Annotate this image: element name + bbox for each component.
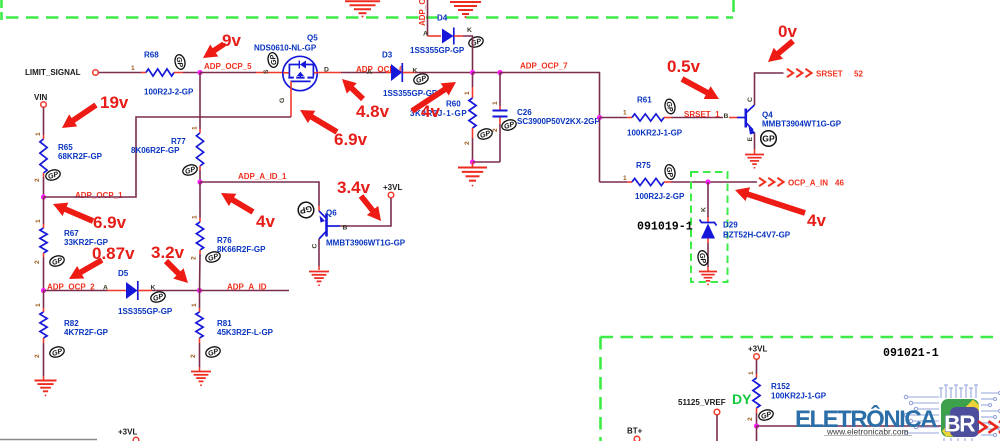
annotation arrow 3.2v xyxy=(164,259,188,283)
resistor R81 xyxy=(190,291,274,372)
svg-text:GP: GP xyxy=(268,54,279,66)
resistor R60 xyxy=(410,73,476,163)
resistor R65 xyxy=(34,108,103,198)
svg-text:VIN: VIN xyxy=(34,93,48,102)
sheet edge line bottom-left xyxy=(0,439,97,441)
svg-text:ADP_OCP_5: ADP_OCP_5 xyxy=(204,62,252,71)
svg-text:0.5v: 0.5v xyxy=(667,57,701,76)
svg-text:1SS355GP-GP: 1SS355GP-GP xyxy=(118,307,173,316)
svg-text:45K3R2F-L-GP: 45K3R2F-L-GP xyxy=(217,328,274,337)
annotation arrow 3.4v xyxy=(359,194,381,221)
svg-text:1: 1 xyxy=(35,303,42,307)
svg-text:4.8v: 4.8v xyxy=(356,102,390,121)
svg-text:100KR2J-1-GP: 100KR2J-1-GP xyxy=(771,392,827,401)
node at D4/R60 junction xyxy=(470,70,475,75)
svg-text:46: 46 xyxy=(835,179,844,188)
svg-text:ADP_OCP_1: ADP_OCP_1 xyxy=(75,191,123,200)
svg-text:E: E xyxy=(747,137,754,142)
node D29 branch xyxy=(705,179,710,184)
svg-text:R81: R81 xyxy=(217,319,232,328)
wire LIMIT_SIGNAL to R68 xyxy=(99,72,142,74)
annotation arrow 0.5v xyxy=(681,76,719,99)
svg-text:1: 1 xyxy=(748,371,755,375)
annotation arrow 6.9v xyxy=(53,203,94,224)
svg-text:9v: 9v xyxy=(222,31,241,50)
wire Q5 drain to D3 xyxy=(316,72,341,74)
GP stamp R75 xyxy=(664,164,677,181)
diode D29 (zener) xyxy=(700,182,791,271)
GP stamp D4 xyxy=(467,35,484,49)
GP stamp R76 xyxy=(204,250,221,264)
svg-text:LIMIT_SIGNAL: LIMIT_SIGNAL xyxy=(25,68,81,77)
svg-text:R77: R77 xyxy=(171,137,186,146)
svg-text:K: K xyxy=(701,207,708,212)
ground below Q4 xyxy=(745,155,764,169)
svg-text:0v: 0v xyxy=(778,22,797,41)
resistor R76 xyxy=(191,182,267,291)
node ADP_A_ID_1 xyxy=(197,179,202,184)
resistor R152 xyxy=(747,360,827,427)
net SRSET_1 xyxy=(671,117,723,119)
svg-text:NDS0610-NL-GP: NDS0610-NL-GP xyxy=(254,44,317,53)
svg-text:R152: R152 xyxy=(771,382,791,391)
wire D3 to node xyxy=(415,72,473,74)
svg-text:R75: R75 xyxy=(636,161,651,170)
svg-text:A: A xyxy=(423,31,428,38)
green dashed box D29 xyxy=(691,172,728,282)
svg-text:6.9v: 6.9v xyxy=(93,213,127,232)
svg-text:BZT52H-C4V7-GP: BZT52H-C4V7-GP xyxy=(723,231,791,240)
annotation arrow 9v xyxy=(203,42,226,58)
svg-text:2: 2 xyxy=(34,178,41,182)
diode D4 xyxy=(410,14,472,56)
svg-text:R68: R68 xyxy=(144,51,159,60)
svg-text:K: K xyxy=(413,68,418,75)
svg-text:R60: R60 xyxy=(446,100,461,109)
node ADP_OCP_2 xyxy=(41,288,46,293)
ground (top, cut) xyxy=(345,1,380,17)
svg-text:51125_VREF: 51125_VREF xyxy=(678,398,726,407)
svg-text:ADP_OCP: ADP_OCP xyxy=(418,0,427,26)
GP stamp R81 xyxy=(204,345,221,359)
ground below Q6 xyxy=(309,272,329,287)
svg-text:www.eletronicabr.com: www.eletronicabr.com xyxy=(826,427,908,437)
svg-text:G: G xyxy=(279,98,286,103)
svg-text:DY: DY xyxy=(732,391,752,407)
svg-text:1: 1 xyxy=(192,215,199,219)
net SRSET pointer xyxy=(787,69,812,77)
svg-text:C26: C26 xyxy=(517,108,532,117)
svg-text:BT+: BT+ xyxy=(627,427,643,436)
annotation arrow 4v xyxy=(735,187,806,216)
wire to D4 anode xyxy=(427,0,429,36)
resistor R77 xyxy=(131,73,204,183)
wire node to C26 node xyxy=(473,72,501,74)
wire 51125_VREF down xyxy=(716,415,718,441)
svg-text:6.9v: 6.9v xyxy=(334,130,368,149)
svg-text:MMBT3904WT1G-GP: MMBT3904WT1G-GP xyxy=(762,120,842,129)
svg-text:2: 2 xyxy=(492,128,499,132)
watermark url underline xyxy=(824,435,912,437)
svg-text:ADP_OCP_7: ADP_OCP_7 xyxy=(520,62,568,71)
node ADP_OCP_1 xyxy=(41,194,46,199)
wire to D5 xyxy=(44,290,108,292)
svg-text:+3VL: +3VL xyxy=(118,428,137,437)
svg-text:D29: D29 xyxy=(723,221,738,230)
svg-text:0.87v: 0.87v xyxy=(92,244,135,263)
wire D5 to node xyxy=(152,290,200,292)
svg-text:R65: R65 xyxy=(58,143,73,152)
watermark circuit traces xyxy=(904,385,1000,441)
annotation arrow 6.9v xyxy=(300,110,339,135)
svg-text:4v: 4v xyxy=(256,212,275,231)
ground below R81 xyxy=(191,372,211,387)
annotation arrow 19v xyxy=(62,103,98,128)
svg-text:1: 1 xyxy=(35,219,42,223)
svg-text:ADP_A_ID_1: ADP_A_ID_1 xyxy=(238,172,287,181)
diode D3 xyxy=(382,51,438,99)
svg-text:100KR2J-1-GP: 100KR2J-1-GP xyxy=(627,129,683,138)
transistor Q5 (P-MOSFET) xyxy=(254,34,329,104)
wire D4 to node xyxy=(463,36,473,73)
wire down to R75 xyxy=(599,118,601,183)
green dashed box bottom-right xyxy=(601,337,1000,441)
svg-text:BR: BR xyxy=(944,411,976,437)
svg-text:68KR2F-GP: 68KR2F-GP xyxy=(58,152,103,161)
wire ADP_A_ID_1 to Q6 xyxy=(200,182,319,206)
svg-text:C: C xyxy=(312,244,319,249)
svg-text:2: 2 xyxy=(34,260,41,264)
svg-text:Q5: Q5 xyxy=(307,34,318,43)
resistor R67 xyxy=(34,197,109,291)
svg-text:R67: R67 xyxy=(64,229,79,238)
svg-text:2: 2 xyxy=(190,354,197,358)
wire to OCP_A_IN xyxy=(671,181,757,183)
ground below R82 xyxy=(35,381,57,397)
svg-text:B: B xyxy=(724,113,729,120)
GP stamp R65 xyxy=(44,168,61,182)
GP stamp R60 xyxy=(476,127,493,141)
svg-text:1: 1 xyxy=(131,65,135,72)
svg-text:K: K xyxy=(467,27,472,34)
node R60/C26 bottom xyxy=(470,159,475,164)
net pointer bottom right xyxy=(978,421,1000,433)
svg-text:Q6: Q6 xyxy=(326,209,337,218)
svg-text:SRSET_1: SRSET_1 xyxy=(684,110,720,119)
GP stamp D5 xyxy=(149,290,166,304)
svg-text:1: 1 xyxy=(623,110,627,117)
resistor R68 xyxy=(131,51,194,97)
annotation arrow 4v xyxy=(221,193,255,215)
GP stamp R77 xyxy=(181,163,198,177)
node R152 bottom xyxy=(754,423,759,428)
svg-text:4v: 4v xyxy=(807,211,826,230)
GP stamp R82 xyxy=(48,345,65,359)
svg-text:1: 1 xyxy=(192,126,199,130)
GP stamp R61 xyxy=(664,98,677,115)
svg-text:19v: 19v xyxy=(100,93,129,112)
svg-text:1: 1 xyxy=(623,175,627,182)
svg-text:SC3900P50V2KX-2GP: SC3900P50V2KX-2GP xyxy=(517,117,600,126)
svg-text:100R2J-2-GP: 100R2J-2-GP xyxy=(144,88,194,97)
svg-text:OCP_A_IN: OCP_A_IN xyxy=(788,179,828,188)
GP stamp C26 xyxy=(500,118,517,132)
node R61 branch xyxy=(597,115,602,120)
ground below R60 xyxy=(472,162,474,167)
svg-text:2: 2 xyxy=(747,417,754,421)
GP stamp R67 xyxy=(48,254,65,268)
resistor R61 xyxy=(623,96,683,138)
wire R68 to node xyxy=(183,72,200,74)
wire node to Q5 source xyxy=(200,72,256,74)
svg-text:100R2J-2-GP: 100R2J-2-GP xyxy=(635,192,685,201)
net OCP_A_IN pointer xyxy=(759,178,784,186)
node ADP_A_ID xyxy=(197,288,202,293)
wire ADP_OCP_1 to Q5 gate xyxy=(44,117,292,197)
svg-text:091021-1: 091021-1 xyxy=(883,347,939,360)
svg-text:A: A xyxy=(367,69,372,76)
svg-text:1SS355GP-GP: 1SS355GP-GP xyxy=(410,46,465,55)
svg-text:R76: R76 xyxy=(217,236,232,245)
GP stamp D29 xyxy=(697,250,710,267)
svg-text:8K06R2F-GP: 8K06R2F-GP xyxy=(131,146,180,155)
svg-text:1: 1 xyxy=(464,91,471,95)
svg-text:C: C xyxy=(747,97,754,102)
annotation arrow 0.87v xyxy=(69,258,103,280)
annotation arrow 0v xyxy=(768,39,795,62)
svg-text:1: 1 xyxy=(191,303,198,307)
wire ADP_A_ID stub xyxy=(200,290,290,292)
annotation arrow 4.8v xyxy=(342,79,365,101)
GP stamp Q5 xyxy=(267,52,279,68)
node ADP_OCP_5 xyxy=(197,70,202,75)
transistor Q4 (NPN) xyxy=(737,73,842,154)
svg-text:GP: GP xyxy=(762,134,775,144)
svg-text:52: 52 xyxy=(854,70,863,79)
svg-text:Q4: Q4 xyxy=(762,111,773,120)
watermark BR tile xyxy=(941,399,979,437)
GP stamp Q4 xyxy=(761,131,777,147)
svg-text:B: B xyxy=(343,225,348,232)
svg-text:1: 1 xyxy=(35,132,42,136)
ground (top 2, cut) xyxy=(450,2,481,18)
svg-text:1: 1 xyxy=(492,101,499,105)
svg-text:R82: R82 xyxy=(64,319,79,328)
svg-text:8K66R2F-GP: 8K66R2F-GP xyxy=(217,245,266,254)
svg-text:2: 2 xyxy=(34,354,41,358)
GP stamp R68 xyxy=(174,54,187,71)
GP stamp D3 xyxy=(412,72,429,86)
svg-text:+3VL: +3VL xyxy=(748,345,767,354)
annotation arrow 4v xyxy=(410,82,456,113)
ground below D29 xyxy=(699,272,717,286)
svg-text:3.4v: 3.4v xyxy=(337,178,371,197)
GP stamp R152 xyxy=(757,408,774,422)
svg-text:4K7R2F-GP: 4K7R2F-GP xyxy=(64,328,109,337)
resistor R82 xyxy=(34,291,109,381)
svg-text:3.2v: 3.2v xyxy=(151,243,185,262)
wire Q5 gate xyxy=(290,81,292,117)
transistor Q6 (PNP) xyxy=(312,198,406,270)
resistor R75 xyxy=(623,161,685,201)
wire ADP_OCP_7 xyxy=(500,73,600,117)
green dashed border top xyxy=(2,0,734,21)
svg-text:+3VL: +3VL xyxy=(383,183,402,192)
svg-text:R61: R61 xyxy=(637,96,652,105)
svg-text:D5: D5 xyxy=(118,269,129,278)
svg-text:2: 2 xyxy=(191,256,198,260)
svg-text:SRSET: SRSET xyxy=(816,70,843,79)
svg-text:MMBT3906WT1G-GP: MMBT3906WT1G-GP xyxy=(326,239,406,248)
svg-text:S: S xyxy=(263,69,270,74)
svg-text:D4: D4 xyxy=(437,14,448,23)
svg-text:4v: 4v xyxy=(421,102,440,121)
svg-text:2: 2 xyxy=(464,141,471,145)
diode D5 xyxy=(107,269,173,316)
capacitor C26 xyxy=(492,73,600,163)
svg-text:091019-1: 091019-1 xyxy=(637,221,693,234)
wire bottom rail xyxy=(757,425,979,427)
svg-text:D3: D3 xyxy=(382,51,393,60)
GP stamp Q6 xyxy=(297,201,316,220)
